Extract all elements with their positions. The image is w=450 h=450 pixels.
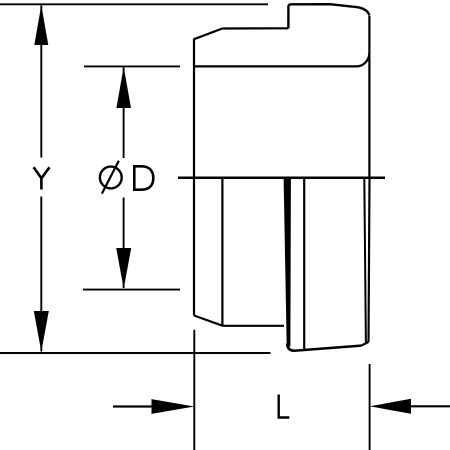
- fitting top shoulder: [222, 27, 288, 29]
- fitting bottom mid edge: [222, 325, 284, 327]
- dim Y top extension line: [0, 3, 268, 5]
- fitting step and top edge: [288, 4, 369, 28]
- mid horizontal seam line: [178, 177, 385, 180]
- dim L right extension line: [369, 364, 371, 450]
- dim Y line upper segment: [40, 6, 42, 158]
- dim Y down arrowhead: [34, 311, 49, 352]
- stub right outer edge: [369, 178, 370, 342]
- dim Y line lower segment: [40, 197, 42, 352]
- stub right inner edge: [364, 178, 366, 343]
- stub bottom-right bevel: [361, 342, 368, 346]
- dim OD bottom extension line: [83, 289, 180, 291]
- label Y: [34, 167, 50, 189]
- dim L left arrowhead: [152, 399, 195, 414]
- label OD letter D: [133, 166, 153, 189]
- dim Y bottom extension line: [0, 352, 271, 354]
- stub inner vertical line: [303, 178, 305, 350]
- interior vertical line: [221, 178, 223, 326]
- fitting top-left bevel: [194, 29, 222, 40]
- dim OD up arrowhead: [116, 67, 131, 108]
- fitting right edge upper: [368, 16, 370, 178]
- fitting body left edge: [193, 39, 195, 316]
- dim L right arrowhead: [370, 399, 411, 414]
- dim L right arrow shaft: [410, 405, 450, 407]
- label OD diameter symbol: [100, 161, 122, 194]
- dim Y up arrowhead: [34, 5, 48, 45]
- ferrule seam line with fillet: [194, 53, 369, 66]
- stub bottom edge: [294, 346, 361, 351]
- dim L left arrow shaft: [113, 405, 153, 407]
- dim OD line lower segment: [123, 198, 125, 289]
- fitting bottom-left bevel: [194, 316, 222, 326]
- dim OD top extension line: [84, 65, 180, 67]
- dim L left extension line: [193, 330, 195, 450]
- stub bottom-left corner: [287, 344, 294, 351]
- dim OD down arrowhead: [116, 248, 131, 289]
- label L: [279, 395, 290, 418]
- stub left thick edge band: [284, 178, 291, 347]
- dim OD line upper segment: [123, 68, 125, 159]
